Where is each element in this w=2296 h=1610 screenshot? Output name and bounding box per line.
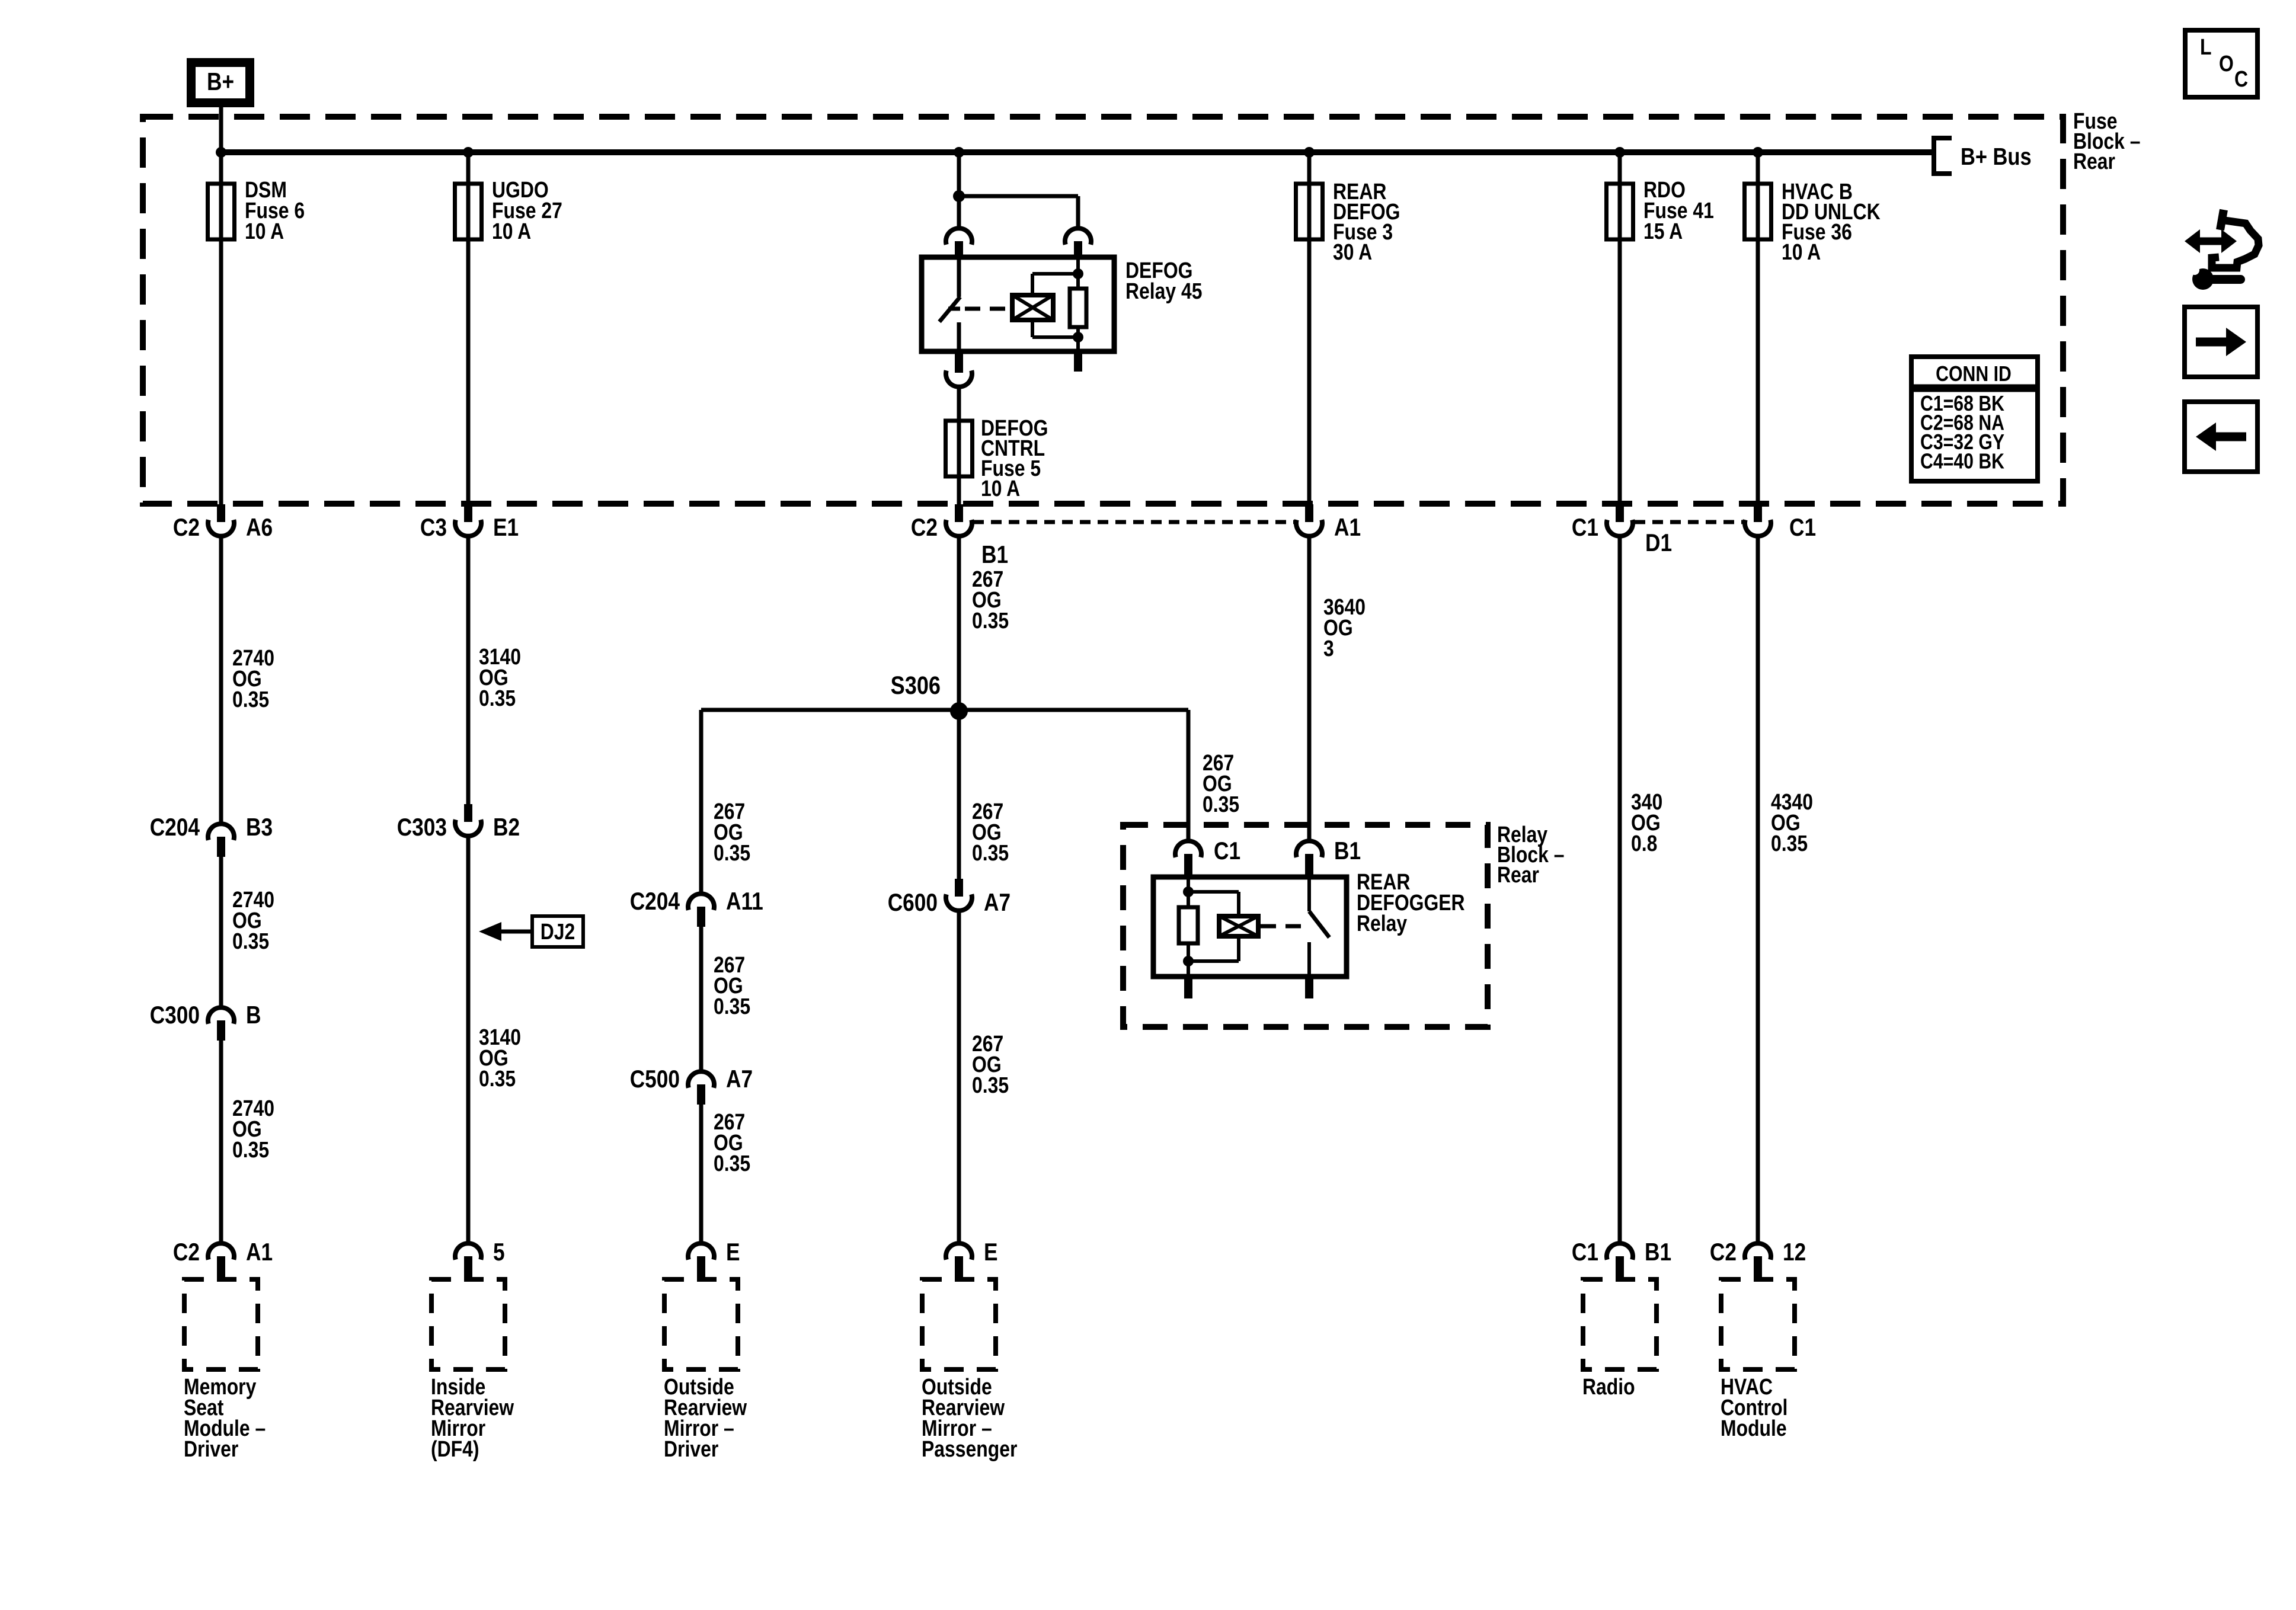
svg-text:DJ2: DJ2 [541,919,575,944]
svg-text:10 A: 10 A [245,219,284,244]
svg-text:CONN ID: CONN ID [1936,363,2012,386]
svg-text:B+: B+ [207,68,234,96]
svg-text:Relay 45: Relay 45 [1125,279,1203,303]
svg-text:Module: Module [1721,1416,1787,1441]
svg-text:C204: C204 [150,814,200,841]
svg-text:C300: C300 [150,1001,200,1029]
svg-text:A11: A11 [726,888,763,916]
svg-text:C204: C204 [630,888,680,916]
svg-text:0.35: 0.35 [232,1137,269,1162]
svg-text:30 A: 30 A [1333,239,1372,264]
svg-text:B3: B3 [246,814,273,841]
svg-text:Rear: Rear [2073,149,2115,174]
svg-text:L: L [2200,34,2211,59]
svg-text:0.35: 0.35 [1203,792,1239,817]
svg-text:C2: C2 [173,1238,200,1266]
svg-text:C2: C2 [1710,1238,1737,1266]
svg-text:Passenger: Passenger [922,1436,1018,1461]
svg-text:B1: B1 [1645,1238,1671,1266]
svg-text:C600: C600 [888,889,938,917]
svg-text:O: O [2219,51,2234,76]
svg-text:Radio: Radio [1582,1374,1635,1399]
svg-text:0.35: 0.35 [972,1073,1009,1097]
svg-text:10 A: 10 A [492,219,531,244]
svg-text:C: C [2234,66,2248,91]
svg-text:3: 3 [1323,636,1334,661]
svg-text:A7: A7 [726,1065,753,1093]
svg-text:C303: C303 [397,814,447,841]
svg-text:C2: C2 [173,514,200,542]
svg-text:Relay: Relay [1357,911,1408,936]
svg-text:0.35: 0.35 [972,608,1009,633]
svg-text:C1: C1 [1789,514,1816,542]
svg-text:B2: B2 [493,814,520,841]
svg-text:15 A: 15 A [1643,219,1683,244]
svg-text:(DF4): (DF4) [431,1436,479,1461]
svg-text:A1: A1 [1334,514,1361,542]
svg-text:5: 5 [493,1238,505,1266]
svg-text:A7: A7 [984,889,1011,917]
svg-text:D1: D1 [1645,529,1672,557]
svg-text:C1: C1 [1214,837,1240,865]
svg-text:0.35: 0.35 [714,994,750,1019]
svg-text:S306: S306 [891,671,941,700]
svg-text:A1: A1 [246,1238,273,1266]
svg-text:0.35: 0.35 [232,929,269,953]
svg-text:B+ Bus: B+ Bus [1961,143,2032,170]
svg-text:E1: E1 [493,514,519,542]
svg-text:E: E [726,1238,740,1266]
svg-text:C3: C3 [420,514,447,542]
svg-text:0.35: 0.35 [714,840,750,865]
svg-text:10 A: 10 A [981,476,1020,501]
svg-text:C2: C2 [911,514,938,542]
svg-text:0.35: 0.35 [714,1151,750,1176]
svg-text:C500: C500 [630,1065,680,1093]
svg-text:B1: B1 [1334,837,1361,865]
svg-text:B1: B1 [981,541,1008,569]
svg-text:0.35: 0.35 [479,1066,516,1091]
svg-text:10 A: 10 A [1782,239,1821,264]
svg-text:C4=40 BK: C4=40 BK [1920,450,2004,473]
svg-text:C1: C1 [1572,1238,1598,1266]
svg-text:B: B [246,1001,261,1029]
svg-text:0.35: 0.35 [1771,831,1808,856]
svg-text:Driver: Driver [184,1436,239,1461]
svg-text:Rear: Rear [1497,862,1539,887]
svg-text:A6: A6 [246,514,273,542]
svg-text:Driver: Driver [664,1436,719,1461]
svg-text:0.35: 0.35 [479,686,516,710]
svg-text:0.35: 0.35 [972,840,1009,865]
svg-text:E: E [984,1238,998,1266]
svg-text:0.8: 0.8 [1631,831,1657,856]
svg-text:12: 12 [1783,1238,1806,1266]
svg-text:C1: C1 [1572,514,1598,542]
svg-text:0.35: 0.35 [232,687,269,712]
